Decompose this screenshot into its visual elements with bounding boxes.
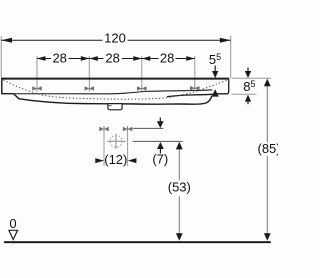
tap hole marker 3 bbox=[138, 86, 147, 92]
dimension 120 arrow right bbox=[220, 38, 231, 43]
svg-text:(7): (7) bbox=[152, 152, 168, 167]
dimension 8.5 up arrow bbox=[245, 95, 251, 102]
drain symbol circle bbox=[110, 135, 122, 147]
extension line right lower horizontal bbox=[232, 93, 257, 95]
washbasin interior hidden (dashed) curve bbox=[3, 80, 226, 99]
extension line top-right horizontal bbox=[232, 77, 272, 79]
dimension (53) up arrow bbox=[176, 142, 183, 150]
reference line A bbox=[133, 127, 164, 129]
dimension 5.5 down arrow bbox=[214, 66, 216, 72]
dimension (53) down arrow bbox=[176, 233, 183, 240]
dimension 8.5 down arrow bbox=[247, 68, 249, 72]
tap hole marker 1 bbox=[33, 86, 42, 92]
dimension 28 arrows at x141.8 bbox=[133, 56, 142, 61]
dimension 120 arrow left bbox=[1, 38, 12, 43]
dimension (53) line bbox=[178, 149, 180, 181]
marker cross right of drain bbox=[123, 126, 132, 132]
extension line tap1 bbox=[36, 56, 38, 85]
dimension (7) down arrow bbox=[159, 118, 161, 122]
svg-text:28: 28 bbox=[52, 51, 66, 66]
washbasin outline (left edge, apron, right edge) bbox=[2, 78, 212, 104]
dimension (85) line bbox=[266, 85, 268, 143]
extension line tap4 bbox=[194, 56, 196, 85]
svg-text:(12): (12) bbox=[104, 152, 127, 167]
dimension (85) up arrow bbox=[264, 79, 271, 87]
dimension 28 arrows at x89.3 bbox=[81, 56, 90, 61]
extension line (12) left bbox=[103, 132, 105, 166]
extension line (12) right bbox=[127, 132, 129, 166]
svg-text:28: 28 bbox=[160, 51, 174, 66]
washbasin right underside and right edge bbox=[167, 78, 229, 96]
floor zero triangle bbox=[9, 230, 18, 239]
washbasin underside shelf line bbox=[14, 90, 213, 94]
dimension 120 line bbox=[1, 39, 231, 41]
reference line B bbox=[133, 140, 183, 142]
tap hole marker 2 bbox=[85, 86, 94, 92]
dimension (12) arrows bbox=[95, 158, 104, 163]
extension line left bbox=[0, 36, 2, 78]
tap hole marker 4 bbox=[191, 85, 200, 91]
dimension 28 arrow at x194.8 bbox=[186, 56, 195, 61]
dimension 5.5 up arrow bbox=[212, 89, 219, 96]
drain symbol crosshair bbox=[107, 140, 126, 142]
svg-text:28: 28 bbox=[105, 51, 119, 66]
extension line tap2 bbox=[88, 56, 90, 85]
drain plug inner mark bbox=[109, 105, 112, 107]
washbasin top edge bbox=[1, 78, 229, 80]
dimension 28 arrow at x37 bbox=[37, 56, 46, 61]
svg-text:120: 120 bbox=[104, 31, 126, 46]
extension line right bbox=[230, 36, 232, 79]
floor line bbox=[4, 241, 271, 243]
dimension (7) up arrow bbox=[157, 142, 164, 149]
svg-text:0: 0 bbox=[9, 216, 16, 231]
dimension (85) down arrow bbox=[264, 233, 271, 241]
svg-text:(85): (85) bbox=[258, 141, 279, 156]
drain plug below basin bbox=[108, 104, 122, 110]
marker cross left of drain bbox=[100, 126, 109, 132]
extension line tap3 bbox=[141, 56, 143, 85]
svg-text:(53): (53) bbox=[168, 180, 191, 195]
dimension 28 line bbox=[37, 58, 195, 60]
